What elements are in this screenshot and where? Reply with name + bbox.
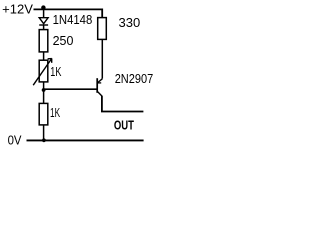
wire collector to OUT [102,96,143,112]
svg-text:250: 250 [53,33,74,48]
svg-text:0V: 0V [8,132,22,147]
svg-text:1K: 1K [50,64,61,79]
svg-text:2N2907: 2N2907 [115,71,154,86]
node junction on +12V rail [41,5,45,9]
wire base [44,88,97,90]
potentiometer VR1 1K [33,58,52,85]
resistor R1 250 [39,30,48,52]
wire R2 to 0V rail [43,125,45,140]
wire R1 to potentiometer [43,52,45,60]
resistor R3 330 [98,18,107,40]
svg-text:OUT: OUT [114,118,134,133]
node junction base tee [42,88,46,92]
resistor R2 1K [39,103,48,125]
svg-text:1K: 1K [50,105,60,120]
wire potentiometer to R2 [43,82,45,104]
wire emitter from R3 [101,39,103,78]
wire bottom 0V rail [27,139,144,141]
svg-text:1N4148: 1N4148 [53,12,93,27]
wire diode anode [43,9,45,18]
diode D1 1N4148 [39,18,48,30]
svg-text:+12V: +12V [2,2,33,17]
svg-text:330: 330 [119,15,141,30]
wire top +12V rail [34,9,103,17]
node junction on 0V rail [42,138,46,142]
transistor Q1 2N2907 [97,78,102,96]
